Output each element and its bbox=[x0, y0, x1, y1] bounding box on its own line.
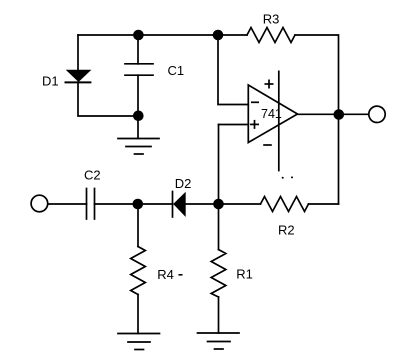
svg-text:C2: C2 bbox=[84, 168, 101, 183]
svg-text:C1: C1 bbox=[168, 63, 185, 78]
svg-text:741: 741 bbox=[261, 107, 282, 121]
svg-text:R1: R1 bbox=[236, 267, 253, 282]
svg-text:D2: D2 bbox=[175, 176, 192, 191]
svg-text:R3: R3 bbox=[263, 12, 280, 27]
svg-text:R2: R2 bbox=[278, 223, 295, 238]
svg-text:D1: D1 bbox=[42, 74, 59, 89]
svg-text:R4: R4 bbox=[157, 267, 174, 282]
